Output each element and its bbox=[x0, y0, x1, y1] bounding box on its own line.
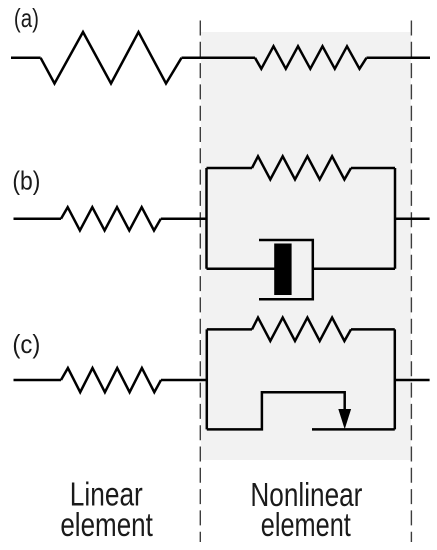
wire (row c, bottom branch: slider arm) bbox=[207, 392, 345, 429]
wire (row c, left terminal) bbox=[14, 379, 62, 382]
friction plate line (row c) bbox=[312, 428, 395, 431]
wire (row c, right terminal) bbox=[395, 379, 430, 382]
node: left junction bar of parallel block (b) bbox=[205, 168, 208, 269]
spring (row b nonlinear top branch) bbox=[252, 156, 351, 179]
wire (row b, right terminal) bbox=[395, 218, 430, 221]
node: right junction bar of parallel block (b) bbox=[394, 168, 397, 269]
node: left junction bar of parallel block (c) bbox=[206, 329, 209, 429]
wire (row b, bottom branch left into damper) bbox=[207, 267, 276, 270]
spring (row a nonlinear element, small zigzag) bbox=[255, 46, 367, 69]
spring (row c linear element) bbox=[61, 368, 161, 392]
wire (row a, right terminal) bbox=[367, 57, 431, 60]
spring (row c nonlinear top branch) bbox=[252, 318, 351, 341]
svg-text:(c): (c) bbox=[12, 329, 40, 359]
wire (row b, top branch right) bbox=[351, 167, 395, 170]
spring (row a linear element, large zigzag) bbox=[41, 32, 182, 84]
svg-text:(a): (a) bbox=[14, 3, 39, 33]
wire (row b, into parallel block) bbox=[161, 218, 207, 221]
svg-text:element: element bbox=[60, 506, 153, 543]
right dashed boundary line bbox=[410, 21, 412, 543]
nonlinear region shaded background bbox=[201, 32, 411, 460]
wire (row b, bottom branch right from damper) bbox=[313, 267, 395, 270]
damper cylinder (row b dashpot housing, open left) bbox=[259, 240, 313, 299]
wire (row c, into parallel block) bbox=[161, 379, 207, 382]
wire (row c, top branch left) bbox=[207, 328, 252, 331]
svg-text:element: element bbox=[261, 506, 351, 543]
wire (row b, left terminal) bbox=[14, 218, 62, 221]
svg-text:(b): (b) bbox=[12, 166, 40, 196]
wire (row a, middle) bbox=[182, 57, 256, 60]
left dashed boundary line bbox=[199, 21, 201, 543]
friction contact arrow (filled head, row c) bbox=[338, 409, 351, 429]
wire (row b, top branch left) bbox=[207, 167, 253, 170]
wire (row c, top branch right) bbox=[351, 328, 395, 331]
wire (row a, left terminal) bbox=[11, 57, 41, 60]
spring (row b linear element) bbox=[61, 207, 161, 230]
damper piston (filled) bbox=[274, 244, 291, 296]
node: right junction bar of parallel block (c) bbox=[394, 329, 397, 429]
